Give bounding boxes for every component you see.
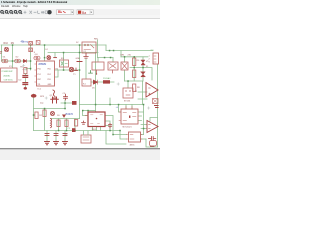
wire cap drops below rail bbox=[47, 131, 65, 142]
diode D6 bbox=[94, 80, 98, 84]
fuse F2 bbox=[36, 41, 40, 45]
wire right bus x143.5 bbox=[143, 105, 145, 135]
wire IC3 bottom pins bbox=[93, 127, 101, 131]
diode D11 bbox=[62, 115, 66, 118]
capacitor C3 bbox=[63, 134, 67, 136]
svg-text:R9: R9 bbox=[11, 42, 15, 45]
connector X4 right edge bbox=[153, 53, 159, 64]
gnd red below K1 bbox=[84, 53, 88, 58]
wire opamp U3 inputs bbox=[141, 125, 147, 129]
curly pin below IC1 bbox=[53, 90, 55, 97]
svg-text:out: out bbox=[151, 48, 154, 51]
svg-text:P0.2: P0.2 bbox=[48, 74, 51, 76]
svg-text:XTL: XTL bbox=[38, 84, 41, 86]
wire top rail jog bbox=[105, 45, 107, 51]
wire stub box2 bbox=[97, 58, 99, 63]
status bar bbox=[0, 150, 160, 160]
capacitor C9 bbox=[23, 76, 28, 78]
varistor V1 bbox=[141, 60, 145, 65]
svg-text:R2: R2 bbox=[39, 115, 43, 117]
snubber cap C11 bbox=[109, 124, 112, 129]
toolbar row bbox=[0, 9, 160, 15]
wire IC1 right net y70 bbox=[55, 69, 80, 71]
wire left edge drop bbox=[1, 45, 3, 61]
gnd stub red x55 bbox=[54, 57, 57, 59]
wire crystal node bbox=[61, 100, 72, 109]
op-amp U2 bbox=[146, 83, 158, 98]
junction dots bbox=[12, 44, 145, 135]
svg-text:R10: R10 bbox=[4, 42, 9, 45]
svg-text:REL: REL bbox=[94, 39, 99, 41]
wire IC1 right net y77 bbox=[55, 70, 59, 77]
resistor R1 bbox=[24, 68, 27, 74]
svg-text:G2: G2 bbox=[15, 57, 19, 59]
inductor L1 bbox=[29, 42, 33, 52]
capacitor C5 bbox=[64, 94, 68, 100]
wire rail y118.5 bbox=[51, 118, 80, 120]
svg-text:IC1: IC1 bbox=[38, 89, 42, 91]
wire x79.5 stub bbox=[79, 105, 81, 119]
wire vertical x44.5 bottom bbox=[44, 109, 46, 131]
pot P1 bbox=[68, 120, 78, 131]
svg-text:P2.0: P2.0 bbox=[48, 79, 51, 81]
op-amp U3 marks bbox=[149, 125, 151, 129]
boxA red pin ticks top bbox=[126, 107, 132, 110]
gnd red left of IC3 bbox=[82, 121, 86, 124]
wire triac top stub bbox=[109, 98, 111, 105]
svg-text:OUT 5V DC: OUT 5V DC bbox=[4, 79, 14, 81]
svg-text:BT136: BT136 bbox=[124, 100, 131, 102]
wire net y57.5 bbox=[98, 57, 114, 59]
diode D8 bbox=[72, 101, 77, 105]
window title bar bbox=[0, 0, 160, 5]
box X3 bbox=[108, 62, 118, 73]
svg-text:AT89S52: AT89S52 bbox=[38, 63, 47, 66]
svg-text:G3: G3 bbox=[35, 54, 39, 56]
svg-text:SPK: SPK bbox=[40, 96, 45, 98]
bottom right mark bbox=[151, 145, 154, 147]
wire vertical x63.5 bbox=[63, 53, 65, 71]
wire vertical x86 relay bbox=[85, 59, 87, 79]
svg-text:R8: R8 bbox=[137, 87, 140, 89]
svg-text:T1: T1 bbox=[73, 74, 76, 76]
optocoupler G2 bbox=[15, 59, 21, 63]
svg-text:P1.2: P1.2 bbox=[38, 74, 41, 76]
wire second rail bbox=[48, 52, 98, 54]
svg-text:1: 1 bbox=[149, 56, 151, 58]
capacitor C10 bbox=[23, 83, 28, 85]
status splitter bbox=[0, 148, 160, 149]
box X2 bbox=[92, 62, 104, 75]
bridge D1 bbox=[121, 62, 128, 70]
svg-text:C4: C4 bbox=[45, 49, 48, 51]
boxA red pin ticks left bbox=[119, 112, 121, 121]
wire J2 stubs bbox=[84, 131, 89, 135]
wire boxB right pins bbox=[141, 135, 147, 140]
svg-text:230V AC: 230V AC bbox=[3, 74, 11, 77]
svg-text:P0.0: P0.0 bbox=[48, 68, 51, 70]
connector J2 bbox=[81, 135, 91, 143]
wire bridge stubs bbox=[124, 57, 126, 81]
wire boxA right stubs bbox=[138, 112, 144, 121]
resistor R2 bbox=[35, 112, 38, 119]
wire snubber cap stubs bbox=[105, 125, 109, 127]
svg-text:GND: GND bbox=[76, 58, 81, 60]
svg-text:250VAC: 250VAC bbox=[103, 77, 111, 80]
wire staircase 1 bbox=[120, 131, 127, 140]
resistor R3 bbox=[43, 110, 46, 117]
triac Q6 box bbox=[123, 88, 133, 98]
svg-text:22p: 22p bbox=[40, 103, 44, 105]
diode D5 bbox=[24, 59, 27, 62]
menu bar bbox=[0, 5, 160, 9]
wire opamp power corner bbox=[150, 118, 158, 122]
resistor R7 bbox=[133, 70, 136, 78]
svg-text:D9: D9 bbox=[57, 115, 61, 117]
svg-text:D6: D6 bbox=[92, 88, 95, 90]
svg-text:P1.0: P1.0 bbox=[38, 68, 41, 70]
svg-text:P1: P1 bbox=[68, 128, 71, 130]
wire left horizontal net bbox=[2, 60, 31, 62]
layer dropdown button bbox=[77, 10, 93, 15]
optocoupler G3 bbox=[34, 56, 40, 60]
origin crosses bbox=[23, 64, 150, 136]
connector stub left edge bbox=[0, 52, 2, 53]
wire vertical x97.5 label stub bbox=[97, 40, 99, 58]
gnd red left of relay coil bbox=[74, 68, 77, 71]
wire varistor column x143 bbox=[142, 57, 144, 81]
relay coil K1A bbox=[82, 79, 91, 86]
wire verticals to y130 bbox=[59, 119, 76, 131]
note frame table bbox=[1, 68, 17, 82]
svg-text:D2: D2 bbox=[19, 80, 23, 82]
gnd G6 bbox=[63, 142, 68, 145]
gnd green below K1A bbox=[89, 71, 93, 74]
wire boxA left feed bbox=[119, 105, 122, 113]
wire main bottom rail y130.5 bbox=[34, 130, 121, 132]
svg-text:G1: G1 bbox=[3, 57, 7, 59]
svg-text:RST: RST bbox=[38, 79, 42, 81]
comp below opamp bbox=[153, 99, 159, 104]
wire top rail right bbox=[106, 50, 153, 52]
gnd flag x79.5 bbox=[77, 61, 82, 63]
wire bottom net y81 bbox=[125, 80, 144, 82]
IC5 box B bbox=[129, 132, 141, 142]
transistor Q2 bbox=[69, 67, 73, 71]
wire relay row y82 bbox=[91, 81, 114, 83]
wire bottom right corner bbox=[146, 139, 158, 147]
wire right cluster feed bbox=[120, 51, 122, 57]
resistor R5 bbox=[65, 120, 68, 127]
wire right cluster rail y56.8 bbox=[121, 56, 148, 58]
svg-text:2: 2 bbox=[149, 59, 151, 61]
resistor R8 bbox=[133, 84, 136, 92]
diode lens D9 bbox=[31, 94, 37, 98]
svg-text:4Bm-q: 4Bm-q bbox=[21, 39, 29, 43]
wire long vertical bus x79.5 bbox=[79, 45, 81, 105]
resistor R4 bbox=[57, 120, 60, 127]
svg-text:3: 3 bbox=[149, 62, 151, 64]
fuse F1 bbox=[103, 80, 110, 83]
wire resistor column x134 bbox=[133, 57, 135, 81]
wire vertical x44.5 top bbox=[44, 45, 46, 61]
wire opamp U2 inputs bbox=[138, 92, 147, 99]
transistor Q3 bbox=[47, 56, 51, 60]
wire IC3 left pin drop bbox=[83, 111, 89, 116]
IC3 left pin tick bbox=[85, 115, 88, 117]
wire center rail y108.5 bbox=[34, 108, 66, 110]
LED LED1 bbox=[150, 141, 157, 147]
svg-text:POWER SUP: POWER SUP bbox=[2, 71, 14, 73]
gnd G5 bbox=[54, 142, 59, 145]
wire mid net y67.5 bbox=[130, 68, 152, 81]
wire right bus x142.5 upper bbox=[142, 81, 144, 105]
wire stub x55 bbox=[54, 53, 56, 58]
svg-text:R6: R6 bbox=[137, 60, 141, 62]
inductor L2 bbox=[51, 119, 52, 128]
wire right edge vertical bbox=[157, 64, 159, 147]
wire triac feed bbox=[127, 81, 129, 88]
toolbar icons bbox=[1, 11, 22, 14]
transistor Q1 top-left bbox=[4, 47, 8, 51]
IC1 left pin stubs bbox=[35, 64, 37, 82]
optocoupler B1 bbox=[60, 60, 69, 67]
wire staircase 2 bbox=[106, 131, 126, 145]
canvas bbox=[0, 20, 160, 148]
wire boxA top pins bbox=[126, 105, 132, 110]
wire IC3 right pin 2 bbox=[105, 121, 110, 131]
wire vertical x30.5 bbox=[30, 45, 32, 70]
wire main rail y104.5 bbox=[80, 104, 144, 106]
svg-text:MOC3021: MOC3021 bbox=[123, 126, 133, 128]
IC4 box A bbox=[121, 109, 138, 124]
op-amp U3 bbox=[147, 121, 158, 133]
relay K1 box bbox=[82, 42, 96, 53]
polar disc below bbox=[24, 87, 27, 90]
IC3 regulator box bbox=[88, 112, 105, 127]
op-amp U2 marks bbox=[149, 88, 151, 95]
red marks right bbox=[155, 106, 159, 108]
diode D10 on rail bbox=[72, 128, 76, 132]
wire vertical x12.5 bbox=[12, 45, 14, 68]
wire vertical x95.5 bbox=[95, 53, 97, 113]
svg-text:230: 230 bbox=[128, 55, 132, 57]
svg-text:5V: 5V bbox=[76, 42, 79, 44]
grid dropdown button bbox=[57, 10, 74, 15]
wire corner y68 bbox=[26, 69, 31, 71]
wire R1 to C9 bbox=[24, 74, 26, 87]
resistor R6 bbox=[133, 58, 136, 66]
svg-text:4N35: 4N35 bbox=[130, 145, 136, 147]
wire vertical x33.5 bbox=[33, 94, 35, 131]
varistor V2 bbox=[141, 72, 145, 77]
IC1 microcontroller bbox=[37, 61, 55, 86]
capacitor C12 under U3 bbox=[149, 137, 156, 141]
wire IC3 right pin 1 bbox=[105, 116, 127, 135]
capacitor C1 bbox=[45, 134, 49, 136]
boxB red pin ticks bbox=[127, 135, 143, 140]
capacitor C2 bbox=[54, 134, 58, 136]
transistor T3 bbox=[51, 112, 55, 116]
optocoupler G1 bbox=[2, 59, 8, 63]
wire +5V top rail left bbox=[1, 44, 106, 46]
eye icon bbox=[47, 10, 51, 14]
wire stub box3 bbox=[112, 58, 114, 63]
svg-text:2N4C5: 2N4C5 bbox=[65, 112, 73, 116]
gnd G4 bbox=[45, 142, 50, 145]
schematic drawing bbox=[0, 0, 160, 148]
wire IC3 upper left net bbox=[83, 110, 96, 112]
svg-text:K1: K1 bbox=[83, 83, 86, 85]
crystal Q1 with caps bbox=[51, 97, 59, 103]
